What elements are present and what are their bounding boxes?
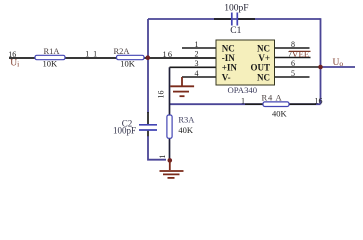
wire: R4A right pin stub [289, 103, 316, 105]
svg-text:OUT: OUT [250, 63, 270, 73]
svg-text:16: 16 [315, 97, 323, 106]
resistor R4A [262, 93, 290, 119]
ground: pin4 V- ground [170, 77, 194, 96]
wire: R4A left pin stub [245, 103, 263, 105]
svg-text:16: 16 [157, 91, 166, 99]
wire: R4A feedback row [170, 103, 321, 105]
svg-text:1: 1 [241, 96, 245, 105]
wire: right feedback vertical [320, 18, 322, 104]
svg-text:NC: NC [222, 44, 235, 54]
svg-text:1: 1 [195, 40, 199, 49]
svg-text:V-: V- [222, 72, 231, 82]
svg-text:5: 5 [291, 69, 295, 78]
wire: pin7 lead VEE [275, 57, 311, 59]
svg-text:6: 6 [291, 59, 295, 68]
wire: pin1 lead [182, 47, 216, 49]
wire: input segment Ui to R1A [9, 57, 35, 59]
wire: C1 right pin stub [238, 18, 255, 20]
svg-text:16: 16 [163, 50, 174, 59]
wire: top feedback horizontal [148, 18, 321, 20]
svg-text:-IN: -IN [222, 53, 235, 63]
svg-text:R3A: R3A [178, 114, 195, 124]
wire: left feedback vertical (junction to top) [147, 19, 149, 58]
svg-text:VEE: VEE [292, 49, 309, 59]
svg-text:40K: 40K [178, 125, 194, 135]
capacitor C1 [224, 3, 248, 35]
svg-text:OPA340: OPA340 [228, 85, 258, 95]
svg-text:R2A: R2A [114, 46, 131, 56]
wire: pin6 lead to output junction [275, 66, 321, 68]
wire: vertical junction down to C2 [147, 58, 149, 113]
svg-text:C1: C1 [230, 26, 241, 36]
net label VEE overline [289, 49, 311, 59]
svg-text:16: 16 [8, 50, 16, 59]
junction: main node after R2A [146, 55, 151, 60]
svg-text:100pF: 100pF [224, 3, 248, 13]
wire: pin5 lead [275, 76, 310, 78]
svg-text:Ui: Ui [10, 59, 19, 69]
svg-text:R4 A: R4 A [262, 93, 283, 103]
svg-text:+IN: +IN [222, 63, 238, 73]
wire: C2 bottom pin stub [147, 130, 149, 137]
wire: pin3 lead [170, 66, 217, 68]
wire: C2 top pin stub [147, 112, 149, 125]
capacitor C2 [113, 118, 157, 135]
wire: pin8 lead [275, 47, 310, 49]
wire: R1A to R2A segment [65, 57, 117, 59]
op-amp U1 OPA340 [216, 40, 275, 95]
svg-text:2: 2 [195, 50, 199, 59]
wire: R3A bottom to ground node [169, 138, 171, 161]
wire: C1 left pin stub [214, 18, 231, 20]
svg-text:NC: NC [257, 44, 270, 54]
wire: output Uo wire [321, 66, 356, 68]
svg-text:100pF: 100pF [113, 126, 136, 136]
junction: output node [318, 65, 323, 70]
svg-text:3: 3 [195, 59, 199, 68]
resistor R2A [114, 46, 145, 69]
svg-text:1 1: 1 1 [85, 50, 98, 59]
junction: ground node [168, 158, 173, 163]
svg-text:10K: 10K [120, 59, 136, 69]
wire: pin4 lead [182, 76, 216, 78]
ground: bottom ground [160, 160, 184, 178]
wire: +IN vertical down to R3A [169, 67, 171, 115]
svg-text:1: 1 [157, 155, 167, 159]
resistor R1A [35, 46, 65, 69]
svg-text:4: 4 [195, 69, 199, 78]
svg-text:V+: V+ [258, 53, 270, 63]
svg-text:10K: 10K [43, 58, 59, 68]
svg-text:NC: NC [257, 72, 270, 82]
svg-text:40K: 40K [272, 109, 288, 119]
svg-text:Uo: Uo [333, 58, 344, 68]
resistor R3A [167, 114, 195, 138]
svg-text:8: 8 [291, 40, 295, 49]
svg-text:R1A: R1A [44, 46, 61, 56]
wire: junction to IC pin2 [144, 57, 216, 59]
wire: C2 bottom route to ground node [148, 136, 166, 160]
